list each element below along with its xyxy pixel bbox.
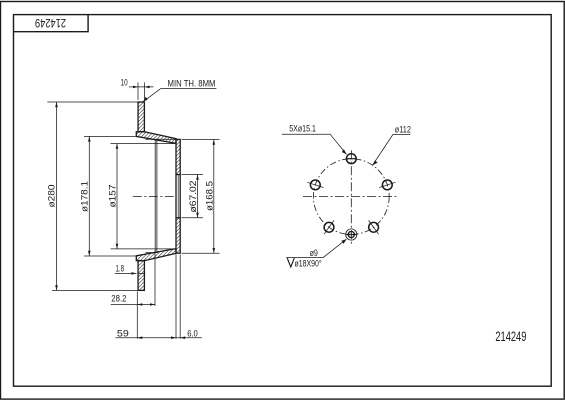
svg-text:ø9: ø9: [310, 248, 318, 259]
svg-text:6.0: 6.0: [187, 329, 198, 340]
svg-text:214249: 214249: [35, 16, 66, 30]
svg-text:ø157: ø157: [108, 185, 119, 208]
svg-text:5Xø15.1: 5Xø15.1: [289, 124, 316, 135]
svg-text:214249: 214249: [495, 329, 526, 344]
svg-text:ø18X90°: ø18X90°: [295, 259, 322, 270]
svg-text:28.2: 28.2: [111, 294, 126, 305]
svg-text:MIN TH. 8MM: MIN TH. 8MM: [168, 78, 216, 89]
svg-text:10: 10: [121, 77, 128, 88]
svg-text:ø67.02: ø67.02: [188, 181, 199, 213]
svg-text:ø178.1: ø178.1: [80, 181, 91, 212]
svg-text:1.8: 1.8: [116, 263, 125, 274]
svg-text:59: 59: [117, 329, 129, 340]
svg-text:ø112: ø112: [395, 124, 411, 135]
svg-text:ø280: ø280: [47, 185, 58, 208]
svg-text:ø168.5: ø168.5: [204, 181, 215, 211]
